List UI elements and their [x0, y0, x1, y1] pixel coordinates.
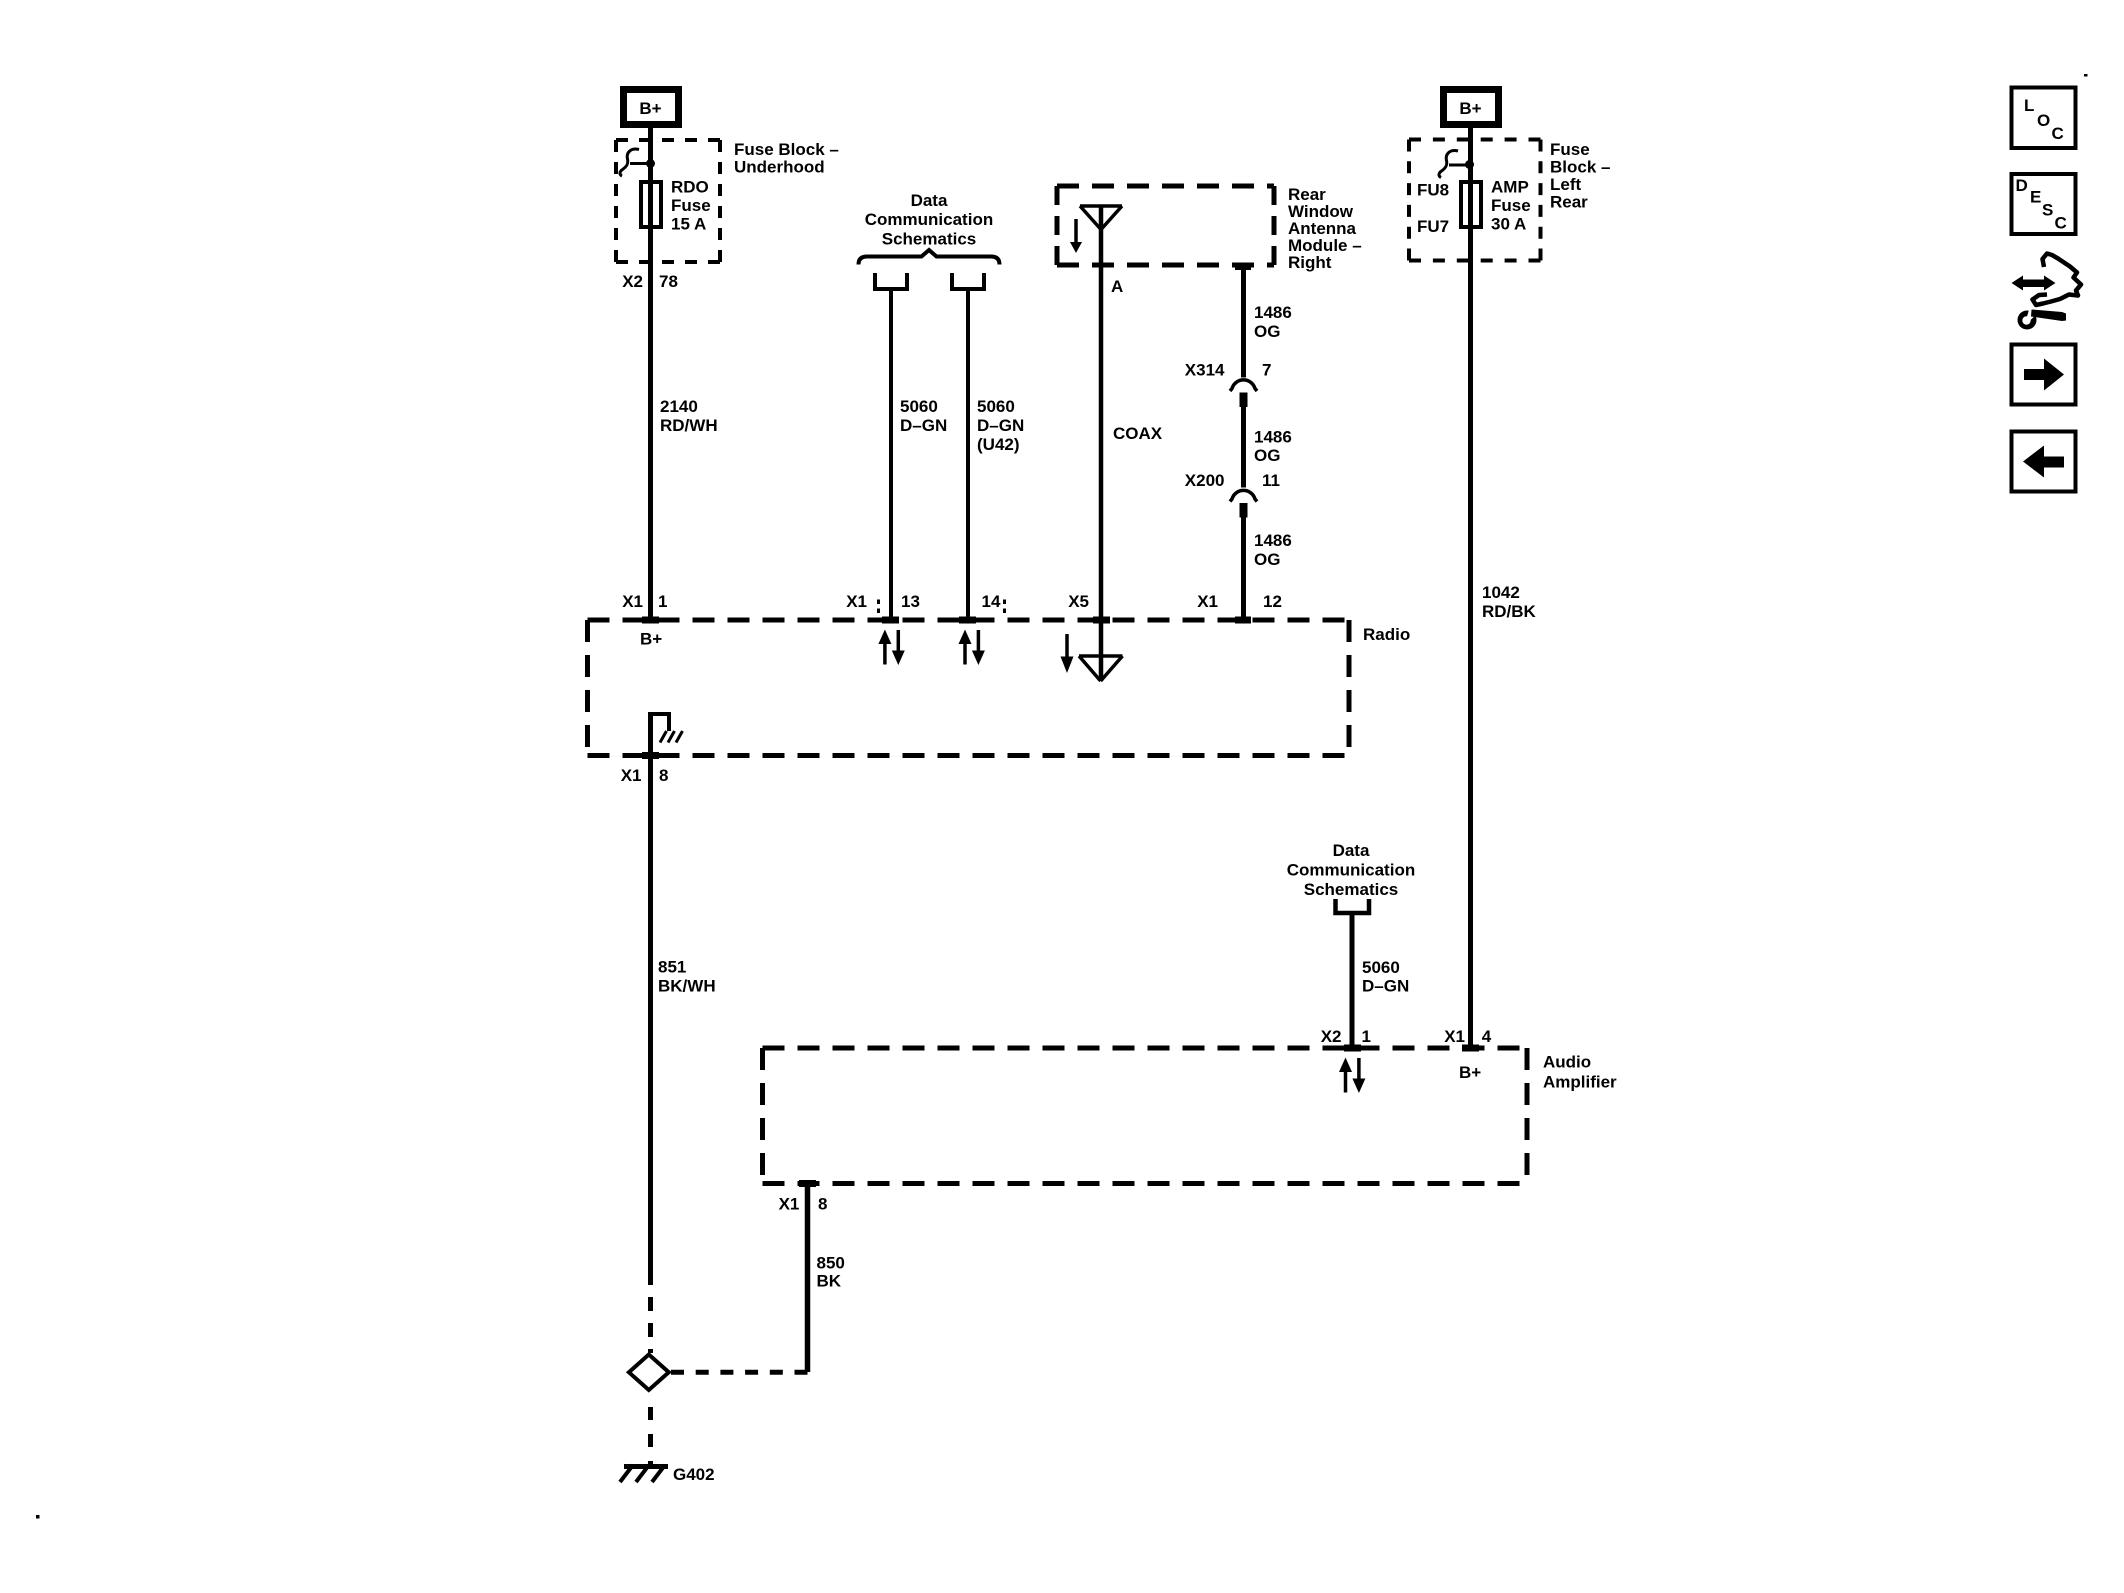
svg-text:1042: 1042 [1482, 583, 1520, 602]
svg-text:G402: G402 [673, 1465, 715, 1484]
svg-text:1486: 1486 [1254, 303, 1292, 322]
svg-text:15 A: 15 A [671, 215, 706, 234]
svg-text:Underhood: Underhood [734, 158, 825, 177]
svg-text:Block –: Block – [1550, 158, 1610, 177]
svg-text:OG: OG [1254, 446, 1280, 465]
svg-text:C: C [2055, 214, 2067, 233]
svg-text:Audio: Audio [1543, 1053, 1591, 1072]
svg-text:OG: OG [1254, 550, 1280, 569]
svg-text:14: 14 [982, 592, 1001, 611]
svg-text:1: 1 [1362, 1027, 1371, 1046]
svg-text:5060: 5060 [900, 397, 938, 416]
svg-text:78: 78 [659, 272, 678, 291]
svg-text:1486: 1486 [1254, 428, 1292, 447]
svg-text:(U42): (U42) [977, 435, 1020, 454]
svg-text:2140: 2140 [660, 397, 698, 416]
svg-text:X1: X1 [779, 1195, 800, 1214]
svg-text:X200: X200 [1185, 471, 1225, 490]
svg-text:S: S [2042, 201, 2053, 220]
svg-text:5060: 5060 [977, 397, 1015, 416]
svg-text:Communication: Communication [1287, 861, 1415, 880]
svg-text:5060: 5060 [1362, 958, 1400, 977]
svg-text:B+: B+ [639, 99, 661, 118]
svg-text:D–GN: D–GN [977, 416, 1024, 435]
svg-text:X2: X2 [1321, 1027, 1342, 1046]
svg-text:BK/WH: BK/WH [658, 977, 716, 996]
svg-text:1486: 1486 [1254, 531, 1292, 550]
svg-text:X1: X1 [1197, 592, 1218, 611]
svg-text:7: 7 [1262, 361, 1271, 380]
svg-text:D–GN: D–GN [900, 416, 947, 435]
svg-text:8: 8 [659, 766, 668, 785]
svg-text:850: 850 [817, 1254, 845, 1273]
svg-text:4: 4 [1482, 1027, 1492, 1046]
svg-text:X1: X1 [621, 766, 642, 785]
svg-text:B+: B+ [1459, 1063, 1481, 1082]
svg-text:E: E [2030, 188, 2041, 207]
svg-text:FU8: FU8 [1417, 181, 1449, 200]
svg-text:Fuse: Fuse [1550, 140, 1590, 159]
svg-text:X1: X1 [1444, 1027, 1465, 1046]
svg-text:12: 12 [1263, 592, 1282, 611]
svg-text:30 A: 30 A [1491, 215, 1526, 234]
svg-text:Rear: Rear [1550, 193, 1588, 212]
svg-text:Fuse: Fuse [1491, 196, 1531, 215]
svg-text:COAX: COAX [1113, 424, 1163, 443]
svg-text:11: 11 [1262, 471, 1280, 490]
svg-text:FU7: FU7 [1417, 217, 1449, 236]
svg-text:BK: BK [817, 1272, 842, 1291]
svg-text:OG: OG [1254, 322, 1280, 341]
svg-text:AMP: AMP [1491, 178, 1529, 197]
svg-text:Radio: Radio [1363, 625, 1410, 644]
svg-text:L: L [2024, 96, 2034, 115]
svg-text:X5: X5 [1068, 592, 1089, 611]
svg-text:C: C [2052, 124, 2064, 143]
svg-text:Data: Data [1333, 841, 1370, 860]
svg-text:Data: Data [911, 191, 948, 210]
svg-text:13: 13 [901, 592, 920, 611]
svg-text:X1: X1 [622, 592, 643, 611]
svg-text:B+: B+ [1459, 99, 1481, 118]
svg-text:Communication: Communication [865, 210, 993, 229]
svg-text:A: A [1111, 277, 1123, 296]
svg-text:Fuse Block –: Fuse Block – [734, 140, 839, 159]
svg-text:RD/WH: RD/WH [660, 416, 718, 435]
svg-text:Schematics: Schematics [882, 230, 977, 249]
svg-text:851: 851 [658, 958, 686, 977]
svg-text:X314: X314 [1185, 361, 1225, 380]
svg-text:X2: X2 [622, 272, 643, 291]
svg-text:D: D [2016, 176, 2028, 195]
svg-text:RDO: RDO [671, 178, 709, 197]
svg-text:O: O [2037, 111, 2050, 130]
svg-text:Fuse: Fuse [671, 196, 711, 215]
svg-text:B+: B+ [640, 630, 662, 649]
svg-text:8: 8 [818, 1195, 827, 1214]
svg-text:D–GN: D–GN [1362, 977, 1409, 996]
svg-text:Left: Left [1550, 175, 1582, 194]
svg-text:1: 1 [658, 592, 667, 611]
svg-text:RD/BK: RD/BK [1482, 602, 1537, 621]
svg-text:Schematics: Schematics [1304, 880, 1399, 899]
svg-text:Right: Right [1288, 253, 1332, 272]
svg-text:X1: X1 [846, 592, 867, 611]
svg-text:Amplifier: Amplifier [1543, 1073, 1617, 1092]
